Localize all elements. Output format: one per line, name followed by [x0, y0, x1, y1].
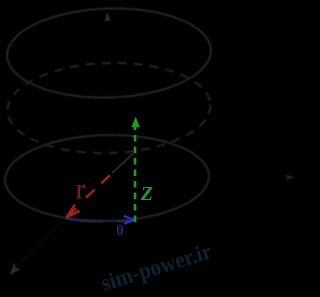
svg-text:Z: Z — [140, 183, 153, 205]
r line red dashed segment — [81, 175, 111, 202]
svg-text:r: r — [75, 173, 85, 206]
black r-axis arrowhead — [10, 263, 21, 275]
r red arrowhead — [66, 205, 75, 218]
cylinder middle dashed ellipse — [6, 60, 212, 156]
rotation direction arrow on top ellipse — [105, 12, 111, 22]
cylinder top ellipse — [6, 5, 213, 100]
blue theta arc — [66, 218, 103, 221]
faint black r-axis extension — [15, 220, 63, 267]
z axis dashed green line — [134, 124, 137, 222]
svg-text:θ: θ — [116, 223, 123, 239]
svg-text:sim-power.ir: sim-power.ir — [98, 239, 214, 296]
right dark arrowhead — [285, 175, 295, 181]
cylinder bottom ellipse — [4, 133, 210, 223]
z axis green arrowhead — [132, 117, 140, 128]
r line black segment — [112, 154, 134, 174]
blue theta arrowhead — [124, 216, 134, 220]
